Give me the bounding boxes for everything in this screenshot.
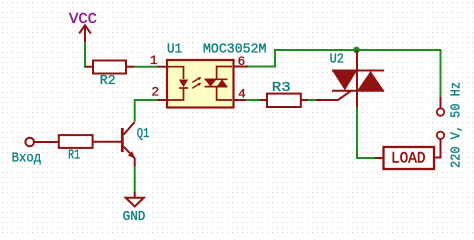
svg-text:GND: GND	[123, 210, 146, 225]
svg-text:4: 4	[238, 87, 246, 102]
svg-text:2: 2	[151, 85, 159, 100]
svg-text:6: 6	[238, 54, 246, 69]
svg-text:1: 1	[150, 53, 158, 68]
svg-text:LOAD: LOAD	[391, 150, 426, 168]
svg-text:R1: R1	[68, 148, 80, 163]
svg-text:220 V, 50 Hz: 220 V, 50 Hz	[450, 82, 465, 168]
svg-text:MOC3052M: MOC3052M	[203, 42, 267, 57]
svg-text:Q1: Q1	[137, 127, 150, 142]
svg-text:Вход: Вход	[12, 151, 42, 166]
svg-text:U1: U1	[167, 42, 182, 57]
svg-text:U2: U2	[330, 52, 344, 67]
svg-text:VCC: VCC	[69, 11, 97, 28]
svg-text:R3: R3	[272, 81, 291, 96]
svg-text:R2: R2	[100, 74, 116, 89]
